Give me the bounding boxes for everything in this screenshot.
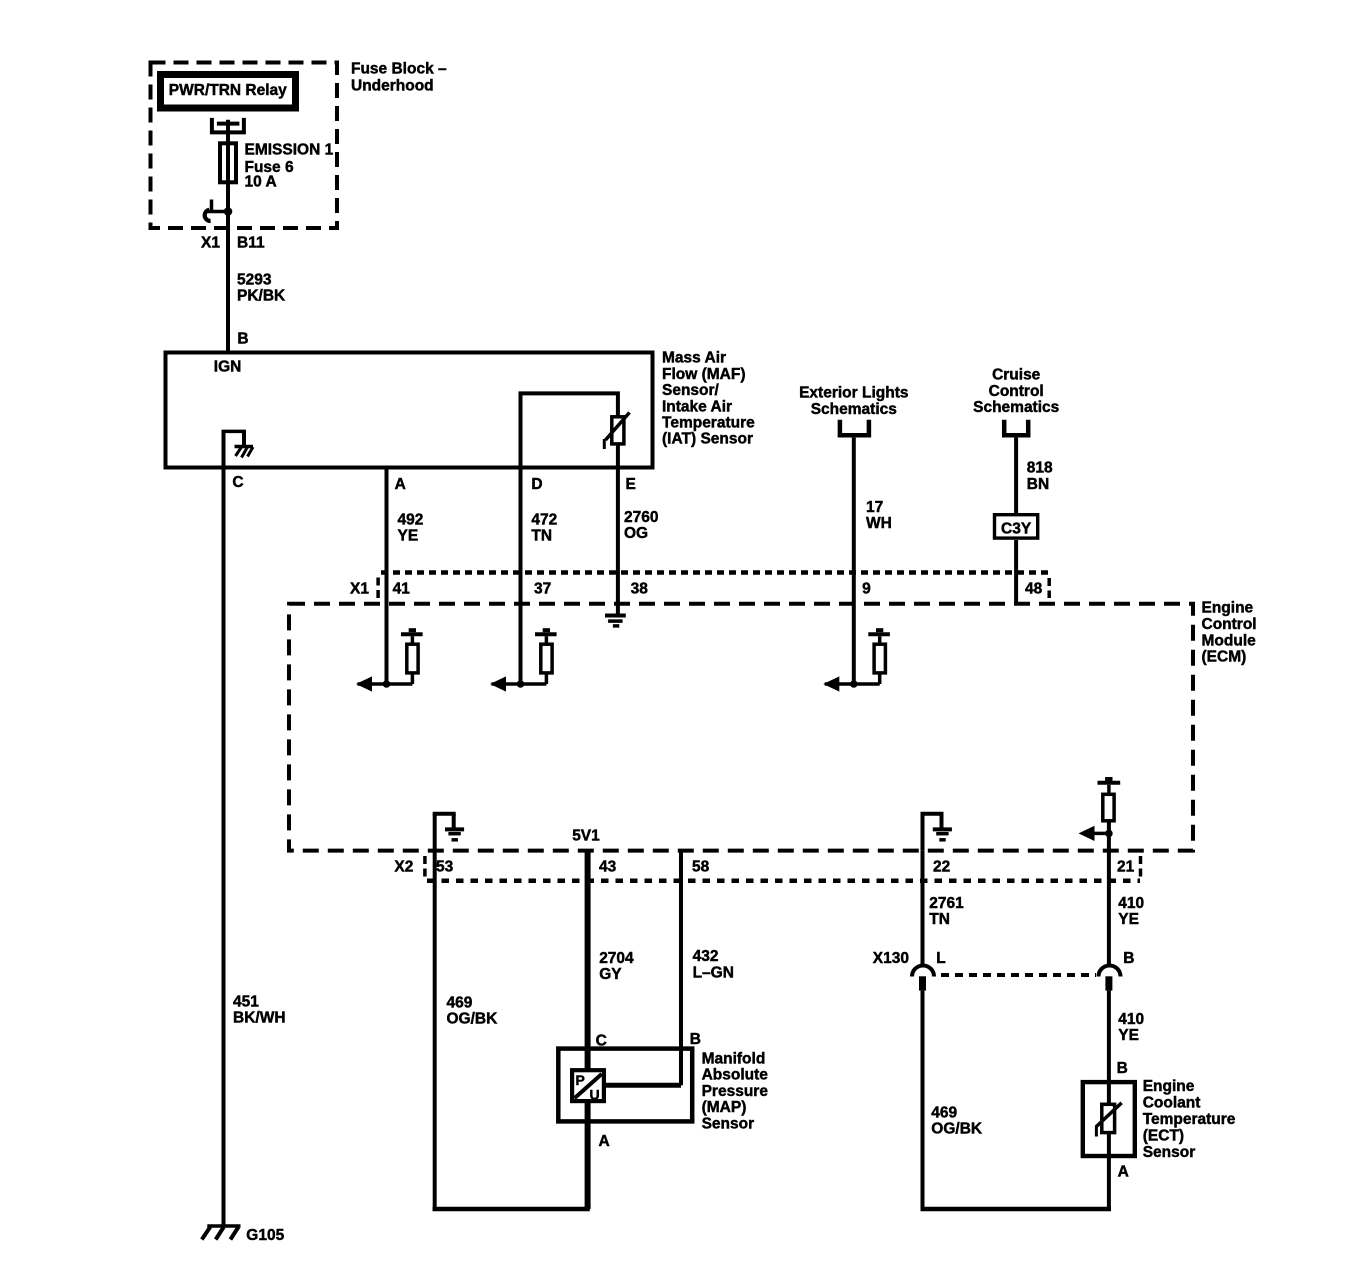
- internal loop wire D to IAT thermistor: [521, 393, 618, 467]
- internal chassis ground in MAF box: [222, 431, 254, 467]
- svg-text:B: B: [1123, 950, 1134, 967]
- connector X130 left terminal L: [912, 966, 934, 991]
- connector X130 dashed link: [941, 973, 1096, 977]
- ECM dashed box: [289, 604, 1193, 851]
- svg-text:Coolant: Coolant: [1143, 1094, 1201, 1111]
- labels X130 L B: [873, 950, 1135, 967]
- svg-text:GY: GY: [599, 966, 622, 983]
- svg-text:469: 469: [931, 1104, 957, 1121]
- label Mass Air Flow (MAF) Sensor / Intake Air Temperature (IAT) Sensor: [662, 350, 755, 448]
- label PWR/TRN Relay: [169, 82, 287, 99]
- offpage connector Cruise Control Schematics: [973, 367, 1059, 416]
- MAP P/U transducer symbol: [572, 1070, 604, 1101]
- MAF/IAT sensor box (IGN): [166, 353, 653, 468]
- wire 58 432 L-GN: [606, 851, 681, 1086]
- svg-text:U: U: [590, 1087, 600, 1103]
- svg-text:YE: YE: [1118, 1027, 1139, 1044]
- wire 469 OG/BK right: [921, 991, 1112, 1209]
- svg-text:IGN: IGN: [214, 359, 242, 376]
- svg-text:41: 41: [393, 581, 411, 598]
- svg-text:P: P: [576, 1072, 585, 1088]
- label 432 L-GN: [693, 948, 734, 982]
- svg-text:OG/BK: OG/BK: [447, 1011, 499, 1028]
- label Engine Coolant Temperature (ECT) Sensor: [1143, 1078, 1236, 1161]
- label 2760 OG: [624, 509, 658, 542]
- pin label B ECT: [1117, 1060, 1128, 1077]
- svg-text:Flow (MAF): Flow (MAF): [662, 366, 746, 383]
- svg-text:2760: 2760: [624, 509, 658, 526]
- svg-text:492: 492: [398, 512, 424, 529]
- svg-text:Engine: Engine: [1143, 1078, 1195, 1095]
- relay output terminal bracket: [212, 118, 244, 132]
- svg-text:432: 432: [693, 948, 719, 965]
- wire E 2760 OG: [616, 468, 620, 614]
- label 2761 TN: [929, 895, 964, 928]
- label 410 YE upper: [1118, 895, 1144, 928]
- label 451 BK/WH: [233, 994, 286, 1027]
- svg-text:Underhood: Underhood: [351, 78, 434, 95]
- label 2704 GY: [599, 950, 634, 983]
- svg-text:Fuse Block –: Fuse Block –: [351, 61, 447, 78]
- internal ground at pin 22: [921, 814, 952, 851]
- wire C 451 BK/WH long left wire: [222, 468, 226, 1227]
- svg-text:YE: YE: [398, 528, 419, 545]
- svg-text:21: 21: [1117, 859, 1135, 876]
- label IGN: [214, 359, 242, 376]
- svg-text:WH: WH: [866, 515, 892, 532]
- label 492 YE: [398, 512, 424, 545]
- svg-text:Sensor/: Sensor/: [662, 382, 720, 399]
- svg-text:Sensor: Sensor: [702, 1115, 755, 1132]
- svg-text:Control: Control: [1202, 616, 1257, 633]
- wire 818 BN: [1014, 438, 1018, 513]
- svg-text:818: 818: [1027, 460, 1053, 477]
- wire 2761 TN pin 22 to X130: [921, 851, 925, 965]
- svg-text:Pressure: Pressure: [702, 1083, 769, 1100]
- svg-text:X2: X2: [394, 859, 413, 876]
- label 5V1: [572, 828, 600, 845]
- svg-text:E: E: [626, 476, 636, 493]
- wire 410 YE X130 to ECT: [1107, 991, 1111, 1209]
- svg-text:B11: B11: [237, 234, 265, 251]
- svg-text:Module: Module: [1202, 632, 1257, 649]
- svg-text:Exterior Lights: Exterior Lights: [799, 385, 908, 402]
- label 410 YE lower: [1118, 1011, 1144, 1044]
- svg-text:Mass Air: Mass Air: [662, 350, 726, 367]
- svg-text:472: 472: [531, 512, 557, 529]
- svg-text:PK/BK: PK/BK: [237, 287, 286, 304]
- svg-text:L: L: [936, 950, 945, 967]
- label 17 WH: [866, 499, 892, 532]
- resistor R4 inline at pin 21: [1079, 777, 1121, 851]
- ECT thermistor RT2: [1096, 1103, 1121, 1137]
- svg-text:X1: X1: [201, 234, 220, 251]
- fuse block underhood dashed box: [151, 63, 338, 229]
- svg-text:469: 469: [447, 995, 473, 1012]
- connector X130 right terminal B: [1099, 966, 1121, 991]
- connector C3Y box: [995, 515, 1038, 538]
- bracket cruise control: [1004, 420, 1028, 436]
- resistor R3 pullup at pin 9: [823, 628, 890, 691]
- svg-text:Sensor: Sensor: [1143, 1144, 1196, 1161]
- svg-text:2704: 2704: [599, 950, 634, 967]
- pin label A ECT: [1118, 1164, 1129, 1181]
- svg-text:Control: Control: [989, 383, 1044, 400]
- svg-text:A: A: [1118, 1164, 1129, 1181]
- bracket exterior lights: [840, 420, 869, 436]
- wire 43 2704 GY 5V reference: [585, 851, 591, 1209]
- pin labels C B for MAP sensor: [596, 1031, 701, 1050]
- label 818 BN: [1027, 460, 1053, 493]
- label Manifold Absolute Pressure (MAP) Sensor: [702, 1051, 769, 1133]
- label Fuse Block - Underhood: [351, 61, 447, 95]
- svg-text:Absolute: Absolute: [702, 1067, 769, 1084]
- svg-text:Temperature: Temperature: [1143, 1111, 1236, 1128]
- svg-text:(MAP): (MAP): [702, 1099, 747, 1116]
- wire 5293 PK/BK label: [237, 271, 286, 304]
- pin labels C A D E: [232, 474, 635, 493]
- svg-text:B: B: [690, 1031, 701, 1048]
- svg-text:410: 410: [1118, 895, 1144, 912]
- label EMISSION 1 Fuse 6 10 A: [245, 142, 334, 191]
- internal ground at pin 53: [433, 814, 464, 851]
- svg-text:BN: BN: [1027, 476, 1049, 493]
- svg-text:YE: YE: [1118, 911, 1139, 928]
- wire C3Y to ECM pin 48: [1014, 540, 1018, 604]
- svg-text:Intake Air: Intake Air: [662, 398, 732, 415]
- labels X1 row pins 41 37 38 9 48: [350, 581, 1043, 598]
- IAT thermistor RT: [604, 413, 629, 468]
- MAP sensor box: [558, 1049, 692, 1122]
- svg-text:X130: X130: [873, 950, 909, 967]
- svg-text:17: 17: [866, 499, 883, 516]
- svg-text:Schematics: Schematics: [811, 401, 897, 418]
- earth ground at pin 38: [605, 616, 626, 626]
- wire 53 469 OG/BK left: [433, 851, 590, 1209]
- svg-text:G105: G105: [246, 1227, 284, 1244]
- svg-text:C3Y: C3Y: [1001, 521, 1032, 538]
- resistor R2 pullup at pin 37: [490, 628, 557, 691]
- label 469 OG/BK left: [447, 995, 499, 1028]
- labels P U: [576, 1072, 600, 1103]
- svg-text:C: C: [232, 474, 243, 491]
- svg-text:OG/BK: OG/BK: [931, 1121, 983, 1138]
- svg-text:2761: 2761: [929, 895, 964, 912]
- svg-text:22: 22: [933, 859, 950, 876]
- svg-text:451: 451: [233, 994, 259, 1011]
- switch contact S1: [205, 200, 233, 221]
- wire A 492 YE: [385, 468, 389, 685]
- svg-text:Schematics: Schematics: [973, 399, 1059, 416]
- svg-text:Manifold: Manifold: [702, 1051, 766, 1068]
- wire D 472 TN: [519, 468, 523, 685]
- label 469 OG/BK right: [931, 1104, 983, 1137]
- svg-text:B: B: [237, 331, 248, 348]
- svg-text:TN: TN: [531, 528, 552, 545]
- svg-text:(ECT): (ECT): [1143, 1127, 1184, 1144]
- svg-text:10 A: 10 A: [245, 174, 277, 191]
- labels X2 row pins 53 43 58 22 21: [394, 859, 1134, 876]
- ground G105: [202, 1226, 241, 1240]
- svg-text:5293: 5293: [237, 271, 272, 288]
- fuse F6 EMISSION 1 10A: [220, 143, 236, 182]
- label G105: [246, 1227, 284, 1244]
- svg-text:43: 43: [599, 859, 617, 876]
- connector X1 B11 labels: [201, 234, 265, 251]
- svg-text:37: 37: [534, 581, 551, 598]
- svg-text:D: D: [531, 476, 542, 493]
- svg-text:A: A: [395, 476, 406, 493]
- svg-text:B: B: [1117, 1060, 1128, 1077]
- wire 17 WH: [852, 438, 856, 684]
- svg-text:PWR/TRN Relay: PWR/TRN Relay: [169, 82, 287, 99]
- connector X1 dotted line: [378, 573, 1049, 599]
- svg-text:Engine: Engine: [1202, 600, 1254, 617]
- connector X2 dotted line: [425, 856, 1141, 881]
- label 472 TN: [531, 512, 557, 545]
- svg-text:(IAT) Sensor: (IAT) Sensor: [662, 431, 753, 448]
- wire from relay through fuse to switch and ignition node B: [226, 120, 230, 353]
- svg-text:Temperature: Temperature: [662, 415, 755, 432]
- svg-text:Cruise: Cruise: [992, 367, 1041, 384]
- relay K: PWR/TRN Relay box: [161, 75, 296, 109]
- offpage connector Exterior Lights Schematics: [799, 385, 908, 419]
- svg-text:53: 53: [436, 859, 454, 876]
- label C3Y: [1001, 521, 1032, 538]
- svg-text:X1: X1: [350, 581, 369, 598]
- svg-text:BK/WH: BK/WH: [233, 1010, 286, 1027]
- svg-text:410: 410: [1118, 1011, 1144, 1028]
- svg-text:A: A: [599, 1133, 610, 1150]
- node B label: [237, 331, 248, 348]
- svg-text:EMISSION 1: EMISSION 1: [245, 142, 334, 159]
- svg-text:48: 48: [1025, 581, 1043, 598]
- svg-text:58: 58: [692, 859, 710, 876]
- pin label A MAP: [599, 1133, 610, 1150]
- svg-text:5V1: 5V1: [572, 828, 600, 845]
- ECT sensor box: [1083, 1082, 1135, 1156]
- resistor R1 pullup at pin 41: [356, 628, 423, 691]
- svg-text:L–GN: L–GN: [693, 965, 734, 982]
- svg-text:OG: OG: [624, 525, 648, 542]
- svg-text:38: 38: [631, 581, 649, 598]
- svg-text:TN: TN: [929, 911, 950, 928]
- label Engine Control Module (ECM): [1202, 600, 1257, 666]
- svg-text:9: 9: [862, 581, 871, 598]
- svg-text:(ECM): (ECM): [1202, 649, 1247, 666]
- wire 410 YE pin 21 to X130: [1107, 851, 1111, 965]
